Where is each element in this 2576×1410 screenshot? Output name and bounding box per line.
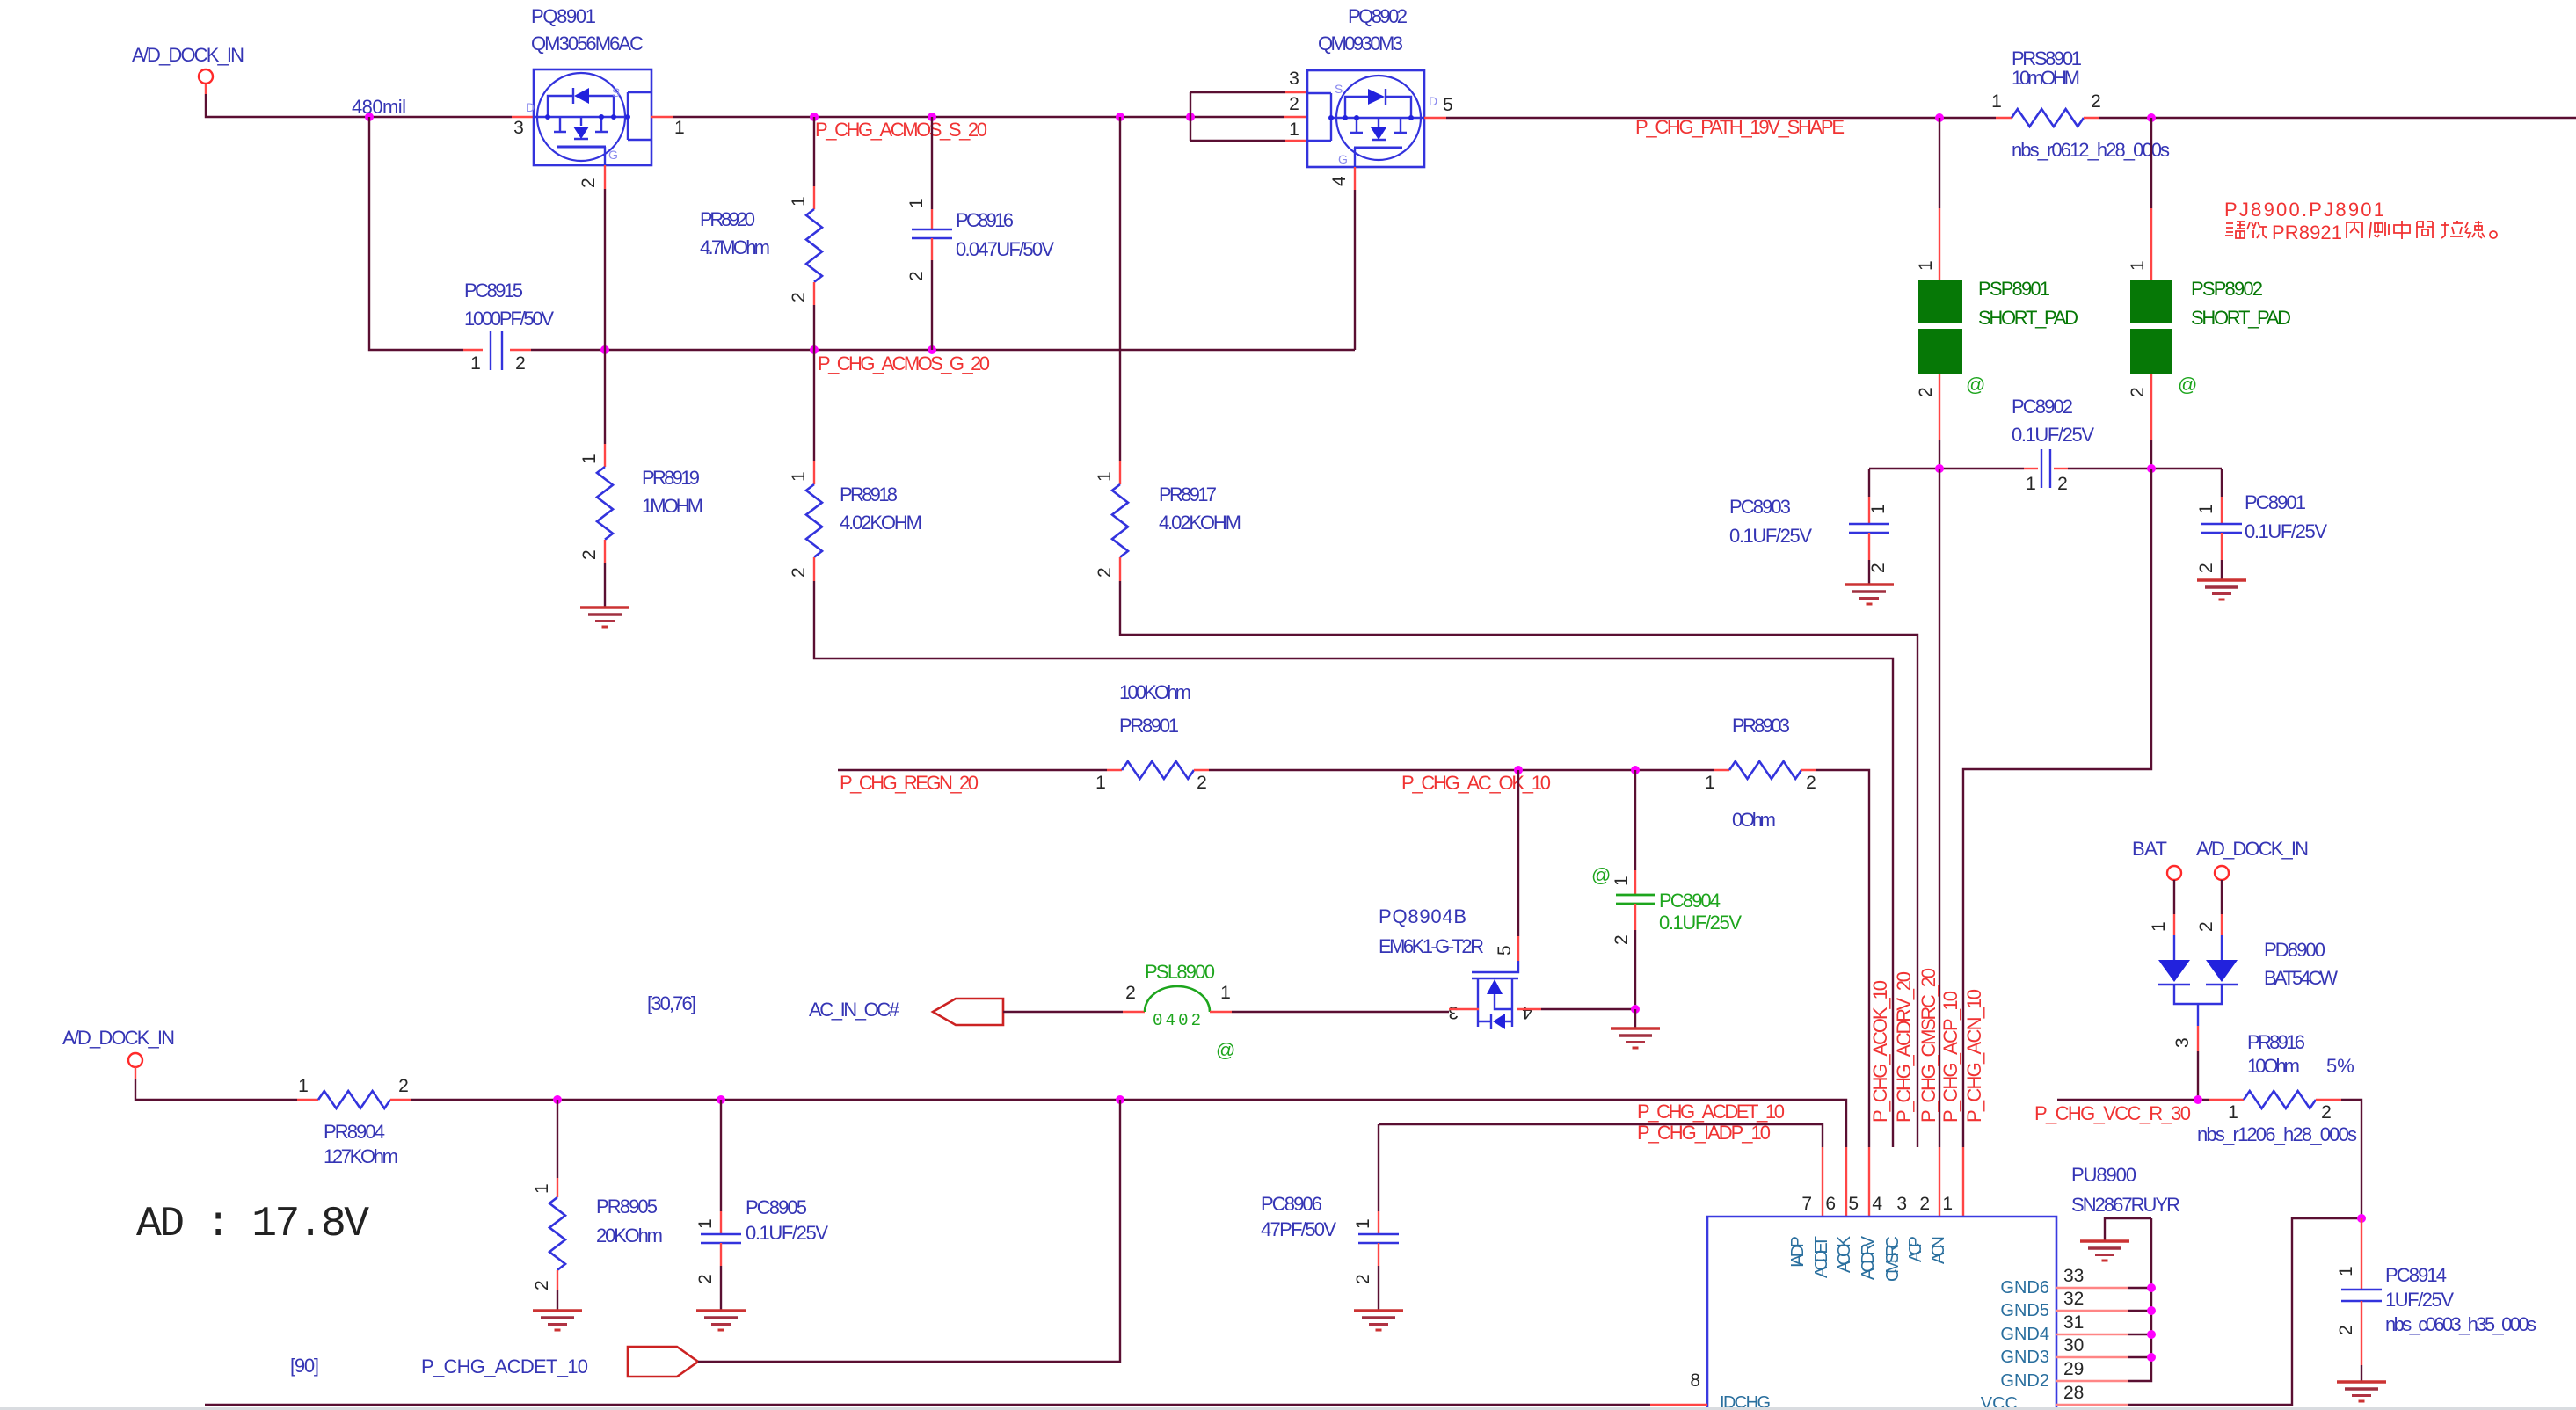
svg-text:P_CHG_ACDET_10: P_CHG_ACDET_10 [1637, 1101, 1785, 1123]
svg-text:AC_IN_OC#: AC_IN_OC# [809, 999, 900, 1021]
wire PR8917 bottom to CMSRC column [1120, 581, 1917, 1147]
svg-text:4: 4 [1329, 176, 1350, 186]
ground under PC8903 [1845, 585, 1894, 604]
svg-text:1000PF/50V: 1000PF/50V [464, 308, 554, 330]
svg-text:A/D_DOCK_IN: A/D_DOCK_IN [2196, 838, 2309, 860]
svg-text:1: 1 [1942, 1194, 1953, 1214]
svg-text:QM3056M6AC: QM3056M6AC [531, 33, 644, 55]
svg-text:PSL8900: PSL8900 [1145, 961, 1215, 983]
svg-text:QM0930M3: QM0930M3 [1318, 33, 1403, 55]
resistor PR8918 4.02KOHM [789, 350, 922, 581]
svg-text:PU8900: PU8900 [2071, 1164, 2136, 1186]
pin stub PQ8902 pin4 (gate) [1354, 167, 1356, 190]
svg-text:2: 2 [2196, 563, 2216, 573]
svg-text:2: 2 [1125, 983, 1136, 1003]
svg-text:5%: 5% [2326, 1055, 2354, 1077]
pin GND4 31 [2000, 1312, 2156, 1344]
capacitor PC8906 47PF/50V [1261, 1124, 1399, 1311]
pin stub chip pin8 [1650, 1404, 1707, 1406]
resistor PRS8901 10mOHM [1991, 47, 2170, 161]
short pad PSP8902 [2128, 278, 2291, 397]
wire AC_IN_OC# to PSL8900 [1003, 1011, 1123, 1013]
svg-text:2: 2 [1916, 387, 1936, 397]
svg-text:6: 6 [1825, 1194, 1836, 1214]
glyph 線 [2465, 221, 2485, 238]
svg-text:PC8903: PC8903 [1729, 496, 1791, 518]
svg-text:PR8918: PR8918 [840, 483, 898, 505]
ground under PC8906 [1354, 1311, 1403, 1330]
ground under PR8905 [533, 1311, 582, 1330]
svg-text:1: 1 [1991, 91, 2002, 112]
svg-text:1: 1 [2196, 504, 2216, 514]
node G-row junction at PC8916 [928, 345, 936, 354]
svg-text:PC8905: PC8905 [746, 1196, 807, 1218]
svg-text:GND4: GND4 [2000, 1325, 2049, 1344]
node junction PRS8901 left / PSP8901 [1935, 113, 1944, 122]
pin stub PQ8901 pin1 [651, 116, 673, 118]
pin stub PQ8902 pin2 [1284, 116, 1307, 118]
svg-text:28: 28 [2063, 1383, 2084, 1403]
svg-text:P_CHG_VCC_R_30: P_CHG_VCC_R_30 [2034, 1102, 2191, 1124]
svg-text:CMSRC: CMSRC [1883, 1236, 1903, 1282]
svg-text:PSP8901: PSP8901 [1978, 278, 2050, 300]
svg-text:SHORT_PAD: SHORT_PAD [2191, 307, 2291, 329]
short pad PSP8901 [1916, 278, 2078, 397]
svg-text:GND6: GND6 [2000, 1278, 2049, 1297]
glyph 請 [2225, 222, 2245, 238]
svg-text:2: 2 [1197, 773, 1207, 793]
svg-text:P_CHG_ACDRV_20: P_CHG_ACDRV_20 [1893, 971, 1915, 1123]
svg-text:0.1UF/25V: 0.1UF/25V [2245, 520, 2327, 542]
wire ACN column (PSP8902 jog to chip pin1) [1963, 469, 2151, 1217]
svg-text:PC8915: PC8915 [464, 280, 523, 302]
svg-text:47PF/50V: 47PF/50V [1261, 1218, 1336, 1240]
svg-text:PR8903: PR8903 [1732, 715, 1790, 737]
svg-text:3: 3 [1896, 1194, 1907, 1214]
wire PSP8902 top feed [2150, 118, 2152, 208]
svg-text:A/D_DOCK_IN: A/D_DOCK_IN [62, 1027, 175, 1049]
node junction PRS8901 right / PSP8902 [2147, 113, 2156, 122]
svg-text:1: 1 [470, 353, 481, 374]
wire bottom A/D row (net P_CHG_ACDET_10) [411, 1100, 1846, 1147]
node G-row junction at PR8918 [810, 345, 819, 354]
svg-text:1: 1 [2128, 260, 2148, 271]
svg-text:1MOHM: 1MOHM [642, 495, 703, 517]
svg-text:3: 3 [513, 118, 524, 138]
svg-text:2: 2 [2091, 91, 2101, 112]
wire S rail (net P_CHG_ACMOS_S_20) [673, 116, 1284, 118]
resistor PR8920 4.7MOhm [700, 117, 822, 350]
svg-text:1: 1 [789, 471, 809, 482]
svg-text:P_CHG_IADP_10: P_CHG_IADP_10 [1637, 1122, 1771, 1144]
svg-text:1: 1 [1289, 120, 1299, 140]
svg-text:@: @ [2178, 374, 2197, 396]
svg-text:1UF/25V: 1UF/25V [2385, 1289, 2454, 1311]
svg-text:PJ8900.PJ8901: PJ8900.PJ8901 [2224, 199, 2384, 221]
wire cap row left (PC8903 top) [1869, 468, 2024, 469]
svg-text:31: 31 [2063, 1312, 2084, 1333]
node junction PSP8902/cap row [2147, 464, 2156, 473]
resistor PR8901 100KOhm [1095, 681, 1209, 793]
svg-text:PC8902: PC8902 [2012, 396, 2073, 418]
transistor PQ8904B EM6K1-G-T2R [1379, 905, 1532, 1029]
diode PD8900 BAT54CW [2149, 880, 2338, 1100]
svg-text:8: 8 [1690, 1370, 1700, 1391]
svg-text:1: 1 [1868, 504, 1888, 514]
svg-text:ACN: ACN [1929, 1236, 1948, 1264]
resistor PR8919 1MOHM [579, 350, 703, 607]
node S-rail junction at PR8917 [1116, 113, 1124, 121]
svg-text:PR8905: PR8905 [596, 1196, 658, 1217]
pin stub PQ8902 pin5 [1424, 117, 1446, 119]
ground under PC8905 [696, 1311, 746, 1330]
wire bottom input row [135, 1079, 297, 1100]
svg-text:PSP8902: PSP8902 [2191, 278, 2263, 300]
svg-text:ACDRV: ACDRV [1859, 1235, 1878, 1280]
ground under PC8901 [2197, 580, 2246, 600]
svg-text:1: 1 [1095, 471, 1115, 482]
svg-text:4: 4 [1872, 1194, 1882, 1214]
svg-text:PC8906: PC8906 [1261, 1193, 1322, 1215]
svg-text:2: 2 [695, 1274, 716, 1284]
svg-text:4: 4 [1522, 1002, 1532, 1022]
svg-text:PC8914: PC8914 [2385, 1264, 2447, 1286]
svg-text:P_CHG_ACOK_10: P_CHG_ACOK_10 [1869, 980, 1891, 1123]
wire gate row (net P_CHG_ACMOS_G_20) [531, 349, 1355, 351]
wire down to ground [1634, 1009, 1636, 1028]
pin GND5 32 [2000, 1289, 2156, 1320]
svg-text:PQ8902: PQ8902 [1348, 5, 1408, 27]
svg-text:127KOhm: 127KOhm [324, 1145, 398, 1167]
svg-text:5: 5 [1848, 1194, 1859, 1214]
svg-text:1: 1 [695, 1218, 716, 1229]
node junction PR8905 [553, 1095, 562, 1104]
node junction PC8914 / VCC [2357, 1214, 2366, 1223]
svg-text:2: 2 [2196, 921, 2216, 932]
svg-text:1: 1 [1353, 1218, 1373, 1229]
ground under PR8919 [580, 607, 629, 627]
wire IDCHG row (bottom-left) [205, 1404, 1650, 1406]
svg-text:D: D [526, 100, 535, 114]
node junction PC8905 [717, 1095, 725, 1104]
glyph 。 [2490, 231, 2497, 238]
node PQ8902 input junction [1186, 113, 1195, 121]
wire PQ8904B pin4 to ground node [1541, 1008, 1635, 1010]
port tag P_CHG_ACDET_10 [628, 1347, 698, 1377]
svg-text:1: 1 [1220, 983, 1231, 1003]
svg-text:1: 1 [532, 1183, 552, 1194]
svg-text:GND3: GND3 [2000, 1348, 2049, 1367]
svg-text:2: 2 [2321, 1102, 2332, 1123]
svg-text:BAT: BAT [2132, 838, 2167, 860]
note text chinese (drawn glyphs) [2225, 221, 2497, 243]
wire PSP8902 bottom to cap row [2150, 374, 2152, 469]
glyph 拉 [2441, 221, 2463, 238]
svg-text:2: 2 [2336, 1325, 2356, 1335]
node 480mil junction [365, 113, 374, 121]
svg-text:P_CHG_AC_OK_10: P_CHG_AC_OK_10 [1401, 772, 1551, 794]
svg-text:33: 33 [2063, 1266, 2084, 1286]
wire ACDET tag riser [698, 1100, 1120, 1362]
pin GND6 33 [2000, 1266, 2156, 1297]
resistor PR8916 10Ohm 5% [2197, 1031, 2357, 1145]
svg-text:P_CHG_ACP_10: P_CHG_ACP_10 [1939, 991, 1961, 1123]
svg-text:@: @ [1216, 1039, 1235, 1061]
svg-text:PR8916: PR8916 [2247, 1031, 2305, 1053]
terminal A/D_DOCK_IN (top-left) [132, 44, 244, 94]
svg-text:5: 5 [1495, 945, 1515, 956]
glyph 間 [2417, 222, 2433, 238]
wire PQ8902 pin4 down to G row [1354, 190, 1356, 350]
pin stub PQ8904B pin4 [1517, 1008, 1541, 1010]
svg-text:7: 7 [1801, 1194, 1812, 1214]
capacitor PC8901 0.1UF/25V [2196, 469, 2327, 580]
svg-text:G: G [608, 148, 618, 162]
node S-rail junction at PR8920 [810, 113, 819, 121]
pin stub PQ8904B pin3 [1449, 1008, 1479, 1010]
svg-text:1: 1 [579, 454, 600, 464]
ground under PC8914 [2337, 1382, 2386, 1401]
svg-text:0Ohm: 0Ohm [1732, 809, 1776, 831]
svg-text:S: S [1335, 82, 1343, 96]
node S-rail junction at PC8916 [928, 113, 936, 121]
svg-text:32: 32 [2063, 1289, 2084, 1309]
svg-text:@: @ [1591, 864, 1611, 886]
svg-text:SN2867RUYR: SN2867RUYR [2071, 1194, 2180, 1216]
svg-text:0.1UF/25V: 0.1UF/25V [746, 1222, 828, 1244]
svg-text:1: 1 [2026, 474, 2036, 494]
svg-text:P_CHG_ACN_10: P_CHG_ACN_10 [1963, 989, 1985, 1123]
resistor PR8905 20KOhm [532, 1100, 663, 1311]
svg-text:P_CHG_ACMOS_G_20: P_CHG_ACMOS_G_20 [818, 352, 990, 374]
svg-text:PD8900: PD8900 [2264, 939, 2325, 961]
capacitor PC8914 1UF/25V [2336, 1218, 2536, 1382]
svg-text:1: 1 [1705, 773, 1715, 793]
svg-text:P_CHG_ACDET_10: P_CHG_ACDET_10 [421, 1355, 588, 1377]
svg-text:GND5: GND5 [2000, 1301, 2049, 1320]
svg-text:A/D_DOCK_IN: A/D_DOCK_IN [132, 44, 244, 66]
terminal BAT [2132, 838, 2181, 880]
svg-text:1: 1 [1095, 773, 1106, 793]
svg-text:1: 1 [2228, 1102, 2238, 1123]
node G-row junction at PR8919 [600, 345, 609, 354]
glyph 內 [2347, 222, 2362, 238]
wire PQ8901 pin2 down to G row [604, 189, 606, 350]
port tag AC_IN_OC# [933, 999, 1003, 1025]
glyph 從 [2247, 222, 2267, 238]
svg-text:0.1UF/25V: 0.1UF/25V [2012, 424, 2094, 446]
wire PQ8904B pin5 column [1495, 770, 1518, 961]
chip GND ground symbol [2080, 1218, 2151, 1261]
svg-text:5: 5 [1443, 95, 1453, 115]
node junction ACDET riser [1116, 1095, 1124, 1104]
svg-text:PR8921: PR8921 [2272, 222, 2342, 243]
capacitor PC8916 0.047UF/50V [906, 117, 1054, 350]
node junction PSP8901/cap row [1935, 464, 1944, 473]
inductor PSL8900 0402 [1123, 961, 1235, 1061]
pin stub chip pin6 [1845, 1147, 1847, 1217]
wire 19V path rail (net P_CHG_PATH_19V_SHAPE) [1446, 117, 1996, 119]
capacitor PC8915 [463, 280, 554, 374]
svg-text:2: 2 [789, 292, 809, 302]
svg-text:ACOK: ACOK [1835, 1235, 1854, 1273]
svg-text:2: 2 [398, 1076, 409, 1096]
svg-text:2: 2 [515, 353, 526, 374]
svg-text:2: 2 [906, 271, 927, 281]
svg-text:2: 2 [579, 549, 600, 560]
svg-text:2: 2 [1095, 567, 1115, 578]
wire AC_OK row (net P_CHG_AC_OK_10) [1209, 769, 1714, 771]
svg-text:0.047UF/50V: 0.047UF/50V [956, 238, 1054, 260]
wire REGN row (net P_CHG_REGN_20) [838, 769, 1107, 771]
wire PQ8902 three-pin split [1190, 92, 1285, 141]
pin GND2 29 [2000, 1359, 2128, 1391]
svg-text:2: 2 [532, 1280, 552, 1290]
IC PU8900 SN2867RUYR outline [1707, 1164, 2180, 1410]
svg-text:29: 29 [2063, 1359, 2084, 1379]
svg-text:2: 2 [789, 567, 809, 578]
svg-text:[30,76]: [30,76] [647, 992, 696, 1014]
wire PSL8900 to PQ8904B pin3 [1232, 1011, 1449, 1013]
svg-text:BAT54CW: BAT54CW [2264, 967, 2338, 989]
wire ACP column (PSP8901 to chip pin2) [1939, 469, 1940, 1217]
svg-text:AD : 17.8V: AD : 17.8V [136, 1201, 369, 1248]
wire PR8918 bottom to ACDRV column [814, 581, 1893, 1147]
bottom page edge band [0, 1407, 2576, 1410]
wire PR8916 to PC8914 column [2341, 1100, 2361, 1218]
svg-text:2: 2 [1289, 94, 1299, 114]
svg-text:IADP: IADP [1788, 1236, 1808, 1268]
svg-text:PQ8904B: PQ8904B [1379, 905, 1466, 927]
svg-text:2: 2 [579, 178, 599, 188]
svg-text:2: 2 [1868, 563, 1888, 573]
resistor PR8904 127KOhm [297, 1076, 411, 1167]
svg-text:10mOHM: 10mOHM [2012, 67, 2080, 89]
svg-text:4.7MOhm: 4.7MOhm [700, 236, 770, 258]
svg-text:10Ohm: 10Ohm [2247, 1055, 2300, 1077]
pin stub PQ8902 pin1 [1285, 140, 1307, 142]
svg-text:nbs_c0603_h35_000s: nbs_c0603_h35_000s [2385, 1313, 2536, 1335]
svg-text:PC8904: PC8904 [1659, 890, 1721, 912]
svg-text:3: 3 [1448, 1002, 1459, 1022]
node junction PD8900 pin3 [2194, 1095, 2202, 1104]
svg-text:2: 2 [1806, 773, 1816, 793]
svg-text:1: 1 [906, 198, 927, 208]
svg-text:nbs_r1206_h28_000s: nbs_r1206_h28_000s [2197, 1123, 2357, 1145]
svg-text:P_CHG_ACMOS_S_20: P_CHG_ACMOS_S_20 [815, 119, 987, 141]
svg-text:2: 2 [2057, 474, 2068, 494]
svg-text:0.1UF/25V: 0.1UF/25V [1659, 912, 1742, 934]
terminal A/D_DOCK_IN (bottom-left) [62, 1027, 175, 1079]
svg-text:PC8916: PC8916 [956, 209, 1014, 231]
pin stub PQ8901 pin3 [512, 116, 534, 118]
capacitor PC8902 0.1UF/25V [2012, 396, 2094, 494]
capacitor PC8905 0.1UF/25V [695, 1100, 828, 1311]
svg-text:[90]: [90] [290, 1355, 319, 1377]
svg-text:nbs_r0612_h28_000s: nbs_r0612_h28_000s [2012, 139, 2170, 161]
resistor PR8903 0Ohm [1705, 715, 1816, 831]
pin stub chip pin7 [1822, 1147, 1823, 1217]
wire VCC_R row (net P_CHG_VCC_R_30) [2057, 1099, 2209, 1101]
svg-text:PQ8901: PQ8901 [531, 5, 596, 27]
pin stub PQ8902 pin3 [1285, 91, 1307, 93]
wire PSP8901 top feed [1939, 118, 1940, 208]
svg-text:20KOhm: 20KOhm [596, 1225, 663, 1246]
svg-text:3: 3 [2172, 1037, 2193, 1048]
svg-text:PR8920: PR8920 [700, 208, 755, 230]
transistor PQ8902 QM0930M3 [1307, 5, 1437, 167]
wire chip GND bus [2128, 1218, 2151, 1381]
svg-text:0.1UF/25V: 0.1UF/25V [1729, 525, 1812, 547]
svg-text:1: 1 [789, 196, 809, 207]
capacitor PC8903 0.1UF/25V [1729, 469, 1889, 585]
svg-text:G: G [1338, 152, 1348, 166]
svg-text:1: 1 [1612, 876, 1632, 886]
wire VCC riser [2128, 1218, 2361, 1405]
wire input to PQ8901 pin3 (net A/D_DOCK_IN) [206, 94, 512, 117]
svg-text:PR8917: PR8917 [1159, 483, 1217, 505]
wire PSP8901 bottom to cap row [1939, 374, 1940, 469]
svg-text:30: 30 [2063, 1335, 2084, 1355]
svg-text:2: 2 [1353, 1274, 1373, 1284]
svg-text:PR8919: PR8919 [642, 467, 700, 489]
svg-text:1: 1 [674, 118, 685, 138]
svg-text:1: 1 [2336, 1266, 2356, 1276]
ground under PC8904 [1611, 1028, 1660, 1048]
svg-text:D: D [1429, 94, 1437, 108]
svg-text:EM6K1-G-T2R: EM6K1-G-T2R [1379, 935, 1484, 957]
pin GND3 30 [2000, 1335, 2156, 1367]
svg-text:1: 1 [1916, 260, 1936, 271]
svg-text:3: 3 [1289, 69, 1299, 89]
svg-text:4.02KOHM: 4.02KOHM [840, 512, 922, 534]
svg-text:1: 1 [298, 1076, 309, 1096]
svg-text:1: 1 [2149, 921, 2169, 932]
wire 19V rail to right edge [2099, 117, 2576, 119]
node junction PQ8904B pin4 / PC8904 / gnd [1631, 1005, 1640, 1014]
node junction PQ8904B pin5 [1514, 766, 1523, 774]
svg-text:2: 2 [1919, 1194, 1930, 1214]
svg-text:SHORT_PAD: SHORT_PAD [1978, 307, 2078, 329]
wire cap row right [2068, 468, 2222, 469]
svg-text:100KOhm: 100KOhm [1119, 681, 1191, 703]
svg-text:PR8904: PR8904 [324, 1121, 385, 1143]
wire IADP row [1379, 1124, 1823, 1147]
svg-text:ACDET: ACDET [1812, 1236, 1831, 1278]
svg-text:2: 2 [1612, 934, 1632, 945]
glyph 側 [2369, 222, 2389, 238]
svg-text:S: S [612, 85, 620, 99]
svg-text:P_CHG_CMSRC_20: P_CHG_CMSRC_20 [1917, 968, 1939, 1123]
svg-text:480mil: 480mil [352, 96, 406, 118]
pin stub PQ8901 pin2 (gate) [604, 165, 606, 189]
glyph 中 [2394, 221, 2410, 239]
terminal A/D_DOCK_IN (right) [2196, 838, 2309, 880]
svg-text:GND2: GND2 [2000, 1371, 2049, 1391]
svg-text:2: 2 [2128, 387, 2148, 397]
svg-text:ACP: ACP [1906, 1236, 1925, 1262]
svg-text:4.02KOHM: 4.02KOHM [1159, 512, 1241, 534]
svg-text:PR8901: PR8901 [1119, 715, 1179, 737]
svg-text:@: @ [1966, 374, 1985, 396]
wire junction down to gate row [369, 117, 463, 350]
svg-text:PC8901: PC8901 [2245, 491, 2306, 513]
resistor PR8917 4.02KOHM [1095, 117, 1241, 581]
svg-text:P_CHG_REGN_20: P_CHG_REGN_20 [840, 772, 979, 794]
pin VCC 28 [1981, 1383, 2128, 1410]
transistor PQ8901 QM3056M6AC [526, 5, 651, 165]
svg-text:P_CHG_PATH_19V_SHAPE: P_CHG_PATH_19V_SHAPE [1635, 116, 1845, 138]
